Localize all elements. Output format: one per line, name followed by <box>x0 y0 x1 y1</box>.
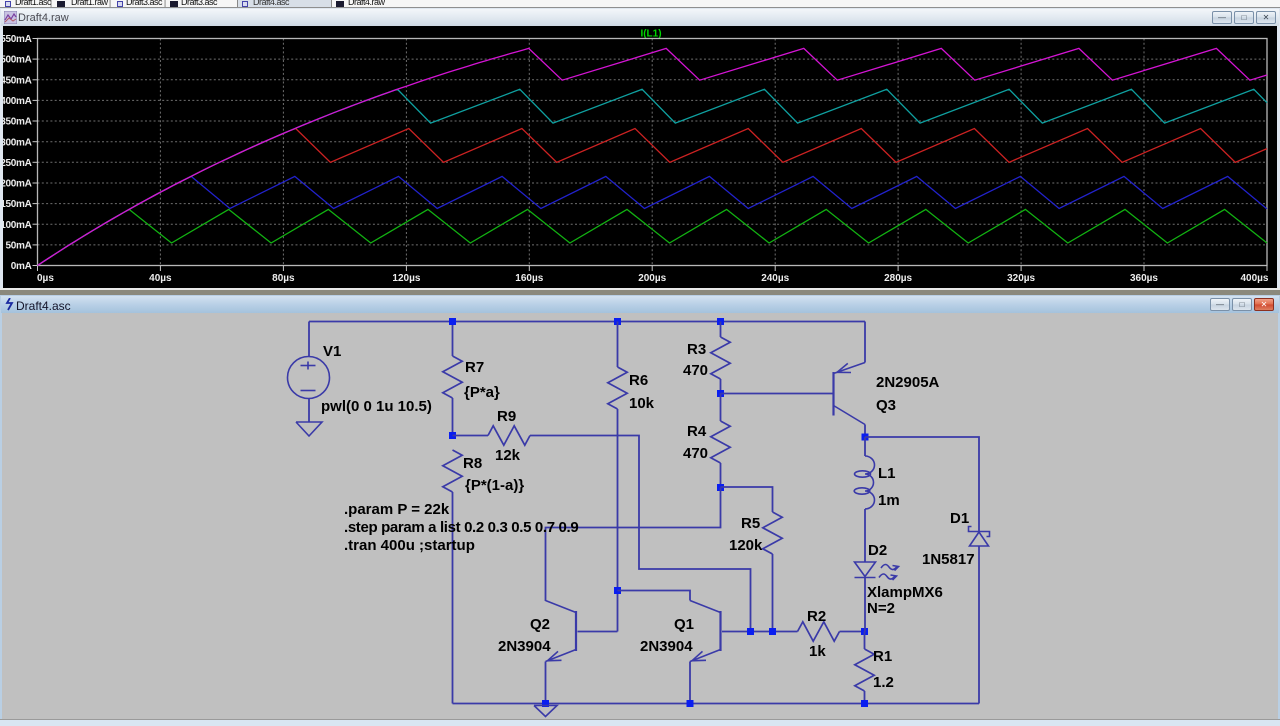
node Q1 base / R5 <box>769 628 776 635</box>
svg-text:450mA: 450mA <box>3 75 32 86</box>
svg-text:300mA: 300mA <box>3 137 32 148</box>
resistor R1 <box>855 649 874 691</box>
svg-text:2N3904: 2N3904 <box>498 638 551 655</box>
svg-text:N=2: N=2 <box>867 600 895 617</box>
wire R7 top lead <box>452 322 454 357</box>
resistor R8 <box>443 450 462 492</box>
wire R5 bottom <box>772 554 774 632</box>
svg-text:D2: D2 <box>868 542 887 559</box>
wire top rail V1 to Q3 emitter <box>309 321 865 323</box>
svg-text:XlampMX6: XlampMX6 <box>867 584 943 601</box>
waveform viewer child window Draft4.raw <box>0 8 1280 295</box>
svg-text:160µs: 160µs <box>515 273 543 284</box>
wire node to Q2 collector <box>546 488 721 602</box>
svg-text:R3: R3 <box>687 341 706 358</box>
svg-text:1k: 1k <box>809 643 826 660</box>
wire Q3 emitter to rail <box>864 322 866 363</box>
diode D1 schottky <box>969 527 990 537</box>
schematic child window Draft4.asc <box>0 295 1280 726</box>
ground under V1 <box>296 422 322 436</box>
wire L1 to D2 <box>864 509 866 562</box>
svg-text:.step param a list 0.2 0.3 0.5: .step param a list 0.2 0.3 0.5 0.7 0.9 <box>344 519 578 536</box>
resistor R9 <box>488 426 530 445</box>
plot border <box>38 39 1268 266</box>
wire R1 top lead <box>864 632 866 650</box>
svg-text:0mA: 0mA <box>11 261 32 272</box>
resistor R6 <box>608 367 627 409</box>
node R3/R4/Q3 base <box>717 390 724 397</box>
svg-text:550mA: 550mA <box>3 34 32 45</box>
svg-text:R7: R7 <box>465 359 484 376</box>
trace I(L1) step2 <box>38 176 1268 265</box>
resistor R5 <box>763 512 782 554</box>
node Q1 base / R9 <box>747 628 754 635</box>
svg-text:0µs: 0µs <box>37 273 54 284</box>
wire R6 bottom to Q2 base column <box>617 409 619 632</box>
svg-text:250mA: 250mA <box>3 158 32 169</box>
wire bottom ground rail <box>453 703 980 705</box>
svg-text:320µs: 320µs <box>1007 273 1035 284</box>
transistor Q1 2N3904 <box>719 611 721 651</box>
svg-text:2N3904: 2N3904 <box>640 638 693 655</box>
svg-text:.tran 400u ;startup: .tran 400u ;startup <box>344 537 475 554</box>
svg-text:470: 470 <box>683 362 708 379</box>
resistor R4 <box>711 421 730 463</box>
wire R4 bottom <box>720 463 722 488</box>
svg-text:240µs: 240µs <box>761 273 789 284</box>
svg-text:R4: R4 <box>687 423 707 440</box>
svg-text:150mA: 150mA <box>3 199 32 210</box>
y axis labels <box>0 34 31 272</box>
wire Q2 base <box>578 631 618 633</box>
wire R4 top lead <box>720 394 722 422</box>
wire node to R5 <box>721 487 773 512</box>
grid lines <box>38 39 1268 266</box>
ground symbol bottom rail <box>534 706 557 717</box>
svg-text:Q3: Q3 <box>876 397 896 414</box>
wire L1 top lead <box>864 437 866 456</box>
svg-text:400mA: 400mA <box>3 96 32 107</box>
wire Q3 base <box>721 393 833 395</box>
wire R9 to Q1 base net <box>530 436 751 632</box>
svg-text:R9: R9 <box>497 408 516 425</box>
node R2/R1/D2 <box>861 628 868 635</box>
transistor Q2 2N3904 <box>575 611 577 651</box>
trace I(L1) step5 <box>38 48 1268 265</box>
wire Q2 emitter to ground <box>545 662 547 704</box>
node top rail R6 <box>614 318 621 325</box>
svg-text:R1: R1 <box>873 648 892 665</box>
svg-text:Q1: Q1 <box>674 616 694 633</box>
trace I(L1) step3 <box>38 129 1268 266</box>
svg-text:12k: 12k <box>495 447 521 464</box>
svg-text:120k: 120k <box>729 537 763 554</box>
svg-text:400µs: 400µs <box>1240 273 1268 284</box>
trace I(L1) step4 <box>38 89 1268 265</box>
svg-text:1m: 1m <box>878 492 900 509</box>
svg-text:120µs: 120µs <box>392 273 420 284</box>
svg-text:R6: R6 <box>629 372 648 389</box>
x axis labels <box>37 273 1269 284</box>
svg-text:1N5817: 1N5817 <box>922 551 975 568</box>
svg-text:{P*a}: {P*a} <box>464 384 500 401</box>
trace I(L1) step1 <box>38 209 1268 265</box>
svg-text:R2: R2 <box>807 608 826 625</box>
voltage source V1 <box>288 357 330 399</box>
wire V1 top <box>308 322 310 358</box>
diode D2 LED <box>855 562 876 577</box>
wire R2 right lead <box>840 631 865 633</box>
resistor R2 <box>798 622 840 641</box>
svg-text:10k: 10k <box>629 395 655 412</box>
wire R3 top lead <box>720 322 722 338</box>
svg-text:470: 470 <box>683 445 708 462</box>
svg-text:200µs: 200µs <box>638 273 666 284</box>
wire node to Q1 collector <box>618 591 691 601</box>
wire R8 bottom to ground rail <box>452 492 454 704</box>
wire D1 to ground rail <box>978 546 980 704</box>
wire V1 bottom <box>308 399 310 423</box>
wire Q3 collector <box>864 425 866 438</box>
resistor R3 <box>711 337 730 379</box>
svg-text:.param P = 22k: .param P = 22k <box>344 501 450 518</box>
transistor Q3 2N2905A <box>832 372 834 416</box>
svg-text:80µs: 80µs <box>272 273 295 284</box>
svg-text:350mA: 350mA <box>3 117 32 128</box>
inductor L1 <box>865 456 875 509</box>
wire R7 to node <box>452 398 454 436</box>
node top rail R7 <box>449 318 456 325</box>
wire Q1 emitter to ground <box>689 662 691 704</box>
wire R1 bottom lead <box>864 691 866 704</box>
node top rail R3 <box>717 318 724 325</box>
svg-text:Q2: Q2 <box>530 616 550 633</box>
wire Q1 base to R2 <box>722 631 798 633</box>
svg-text:{P*(1-a)}: {P*(1-a)} <box>465 477 524 494</box>
svg-text:pwl(0 0 1u 10.5): pwl(0 0 1u 10.5) <box>321 398 432 415</box>
svg-text:L1: L1 <box>878 465 896 482</box>
svg-text:200mA: 200mA <box>3 179 32 190</box>
node ground rail Q1 emitter <box>687 700 694 707</box>
node Q3 collector / L1 / D1 <box>862 434 869 441</box>
axis ticks <box>33 39 1268 272</box>
wire R3 bottom <box>720 379 722 394</box>
svg-text:500mA: 500mA <box>3 55 32 66</box>
svg-text:R5: R5 <box>741 515 760 532</box>
node R7/R8/R9 junction <box>449 432 456 439</box>
wire R6 top lead <box>617 322 619 368</box>
svg-text:R8: R8 <box>463 455 482 472</box>
svg-text:100mA: 100mA <box>3 220 32 231</box>
node ground rail Q2 <box>542 700 549 707</box>
svg-text:40µs: 40µs <box>149 273 172 284</box>
svg-text:50mA: 50mA <box>5 241 31 252</box>
svg-text:2N2905A: 2N2905A <box>876 374 940 391</box>
svg-text:280µs: 280µs <box>884 273 912 284</box>
gap between windows <box>0 288 1280 295</box>
svg-text:V1: V1 <box>323 343 341 360</box>
svg-text:1.2: 1.2 <box>873 674 894 691</box>
node R6/Q1 collector junction <box>614 587 621 594</box>
resistor R7 <box>443 356 462 398</box>
top document tab bar <box>0 0 1280 8</box>
node R4/R5/Q2 collector <box>717 484 724 491</box>
svg-text:D1: D1 <box>950 510 969 527</box>
wire Q3 collector to D1 <box>865 437 979 531</box>
wire D2 to R2 node <box>864 578 866 632</box>
node ground rail R1 <box>861 700 868 707</box>
svg-text:360µs: 360µs <box>1130 273 1158 284</box>
wire R9 left lead <box>453 435 489 437</box>
